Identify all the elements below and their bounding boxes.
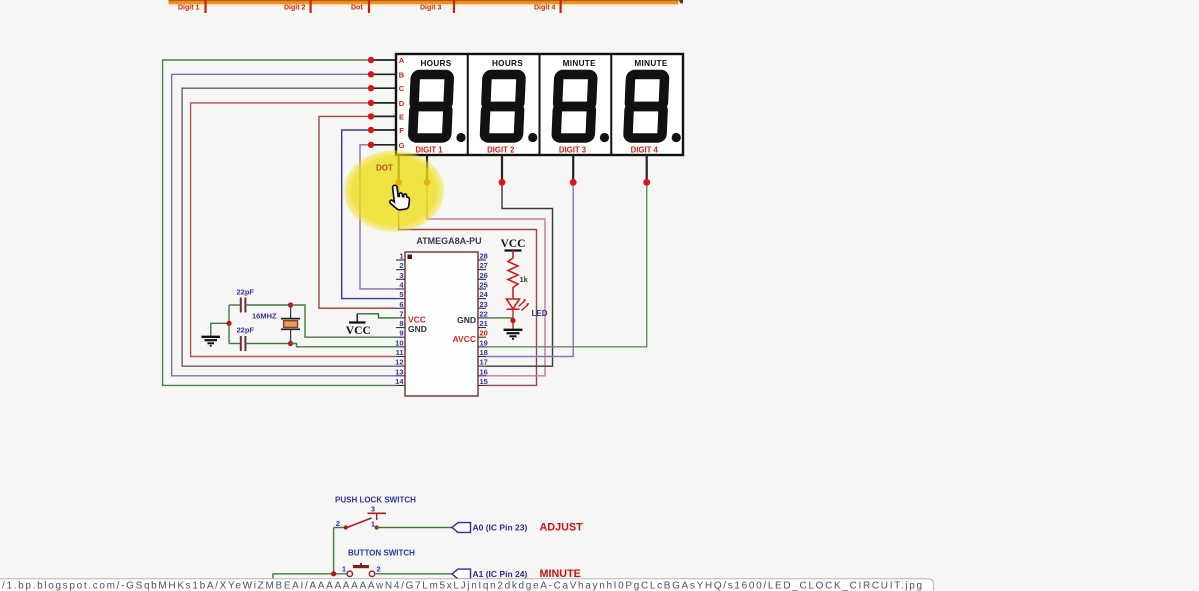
svg-text:F: F [399,126,404,135]
svg-text:A0 (IC Pin 23): A0 (IC Pin 23) [473,523,528,533]
svg-text:DIGIT 2: DIGIT 2 [487,146,515,155]
mouse cursor (hand pointer) [388,184,411,211]
VCC power symbol near pin 7 [346,314,371,337]
wire DOT stub [398,155,400,180]
node DIGIT3 [570,179,577,186]
wire to SW1 pole [334,527,345,529]
wire DIGIT4 stub [646,155,648,180]
wire net G (segment G to pin 4) [360,145,396,289]
wire SW2 to terminal A1 [375,573,452,575]
display digit 2 (HOURS) [484,59,537,155]
svg-text:2: 2 [336,519,340,528]
browser status bar [0,579,934,591]
wire net C (segment C to pin 12) [182,88,396,366]
svg-text:21: 21 [480,319,488,328]
display pin line F [371,129,396,131]
svg-text:23: 23 [480,300,488,309]
node bottom rail junction [331,571,336,576]
display pin line A [371,59,396,61]
svg-text:1: 1 [371,520,375,529]
node capacitor-ground junction [226,321,231,326]
svg-text:12: 12 [395,358,403,367]
svg-text:1: 1 [342,565,346,574]
svg-text:G: G [399,141,405,150]
SW1 pin labels [336,505,375,529]
svg-text:27: 27 [480,261,488,270]
svg-text:19: 19 [480,338,488,347]
SW2 terminal 2 [369,571,374,576]
svg-text:7: 7 [399,309,403,318]
node crystal top junction [288,302,293,307]
wire net DIGIT1 (to pin 16) [427,184,545,376]
svg-text:3: 3 [371,505,375,514]
SW2 terminal 1 [347,571,352,576]
svg-text:16: 16 [480,367,488,376]
ground symbol (crystal circuit) [202,337,221,346]
top bar tick Dot [368,0,370,13]
top bar tick Digit 3 [453,0,455,13]
top bar tick Digit 2 [310,0,312,13]
display digit 3 (MINUTE) [556,59,609,155]
node DIGIT4 [643,179,650,186]
svg-text:22pF: 22pF [237,288,255,297]
wire crystal top to pin 9 [291,305,396,337]
SW1 terminal 2 [344,525,348,529]
display pin line B [371,73,396,75]
svg-text:HOURS: HOURS [492,59,523,68]
svg-text:17: 17 [480,358,488,367]
svg-text:11: 11 [396,348,404,357]
wire net A (segment A to pin 14) [163,60,396,385]
svg-text:10: 10 [395,338,403,347]
display digit 4 (MINUTE) [628,59,681,155]
svg-text:E: E [399,112,404,121]
node G [368,142,374,148]
svg-text:13: 13 [395,367,403,376]
svg-text:AVCC: AVCC [453,334,476,344]
VCC power symbol above R1 [500,237,525,251]
node C [368,85,374,91]
terminal A1 [452,569,471,579]
svg-text:9: 9 [399,329,403,338]
wire net DIGIT4 (to pin 19) [486,184,647,347]
svg-text:ATMEGA8A-PU: ATMEGA8A-PU [416,236,481,246]
yellow highlight circle [343,150,445,233]
svg-text:15: 15 [480,377,488,386]
wire net DIGIT3 (to pin 18) [486,184,573,357]
svg-text:18: 18 [480,348,488,357]
svg-text:16MHZ: 16MHZ [252,312,277,321]
svg-text:Digit 2: Digit 2 [284,5,305,12]
svg-text:HOURS: HOURS [420,59,451,68]
wire net F (segment F to pin 5) [342,130,396,299]
node DIGIT1 [424,179,431,186]
U1 left pin numbers 1-14 [395,252,404,387]
svg-text:3: 3 [399,271,403,280]
U1 right pin numbers 28-15 [480,252,489,387]
display pin line C [371,87,396,89]
svg-text:1k: 1k [520,275,529,284]
svg-text:Digit 3: Digit 3 [420,5,441,12]
node B [368,71,374,77]
segment labels A-G [399,56,405,150]
node LED-GND junction [510,318,515,323]
wire DIGIT2 stub [501,155,503,180]
svg-text:DOT: DOT [376,164,393,173]
svg-text:/1.bp.blogspot.com/-GSqbMHKs1b: /1.bp.blogspot.com/-GSqbMHKs1bA/XYeWiZMB… [2,581,922,591]
svg-text:Digit 4: Digit 4 [534,5,555,12]
SW1 lever [347,518,372,528]
svg-text:LED: LED [532,309,548,318]
SW2 button cap [353,563,369,566]
svg-text:1: 1 [399,252,403,261]
wire SW1 pole down to bottom rail [333,528,335,574]
node A [368,57,374,63]
7-segment display block DS1 [396,54,683,155]
svg-text:D: D [399,99,405,108]
wire DIGIT1 stub [426,155,428,180]
node DIGIT2 [499,179,506,186]
terminal A0 [452,523,471,533]
node E [368,113,374,119]
svg-text:22: 22 [480,309,488,318]
svg-text:DIGIT 3: DIGIT 3 [559,146,587,155]
top bar tick Digit 1 [204,0,206,13]
svg-text:GND: GND [457,315,476,325]
svg-text:VCC: VCC [500,237,525,250]
svg-text:8: 8 [399,319,403,328]
SW1 pin 3 [368,513,387,520]
wire net D (segment D to pin 11) [191,103,396,357]
svg-text:MINUTE: MINUTE [540,568,581,580]
svg-text:MINUTE: MINUTE [634,59,667,68]
svg-text:A: A [399,56,405,65]
svg-text:2: 2 [377,565,381,574]
ground symbol (LED) [504,330,523,339]
display pin line E [371,115,396,117]
wire capacitors left vertical [228,305,230,344]
node D [368,100,374,106]
svg-text:DIGIT 1: DIGIT 1 [415,146,443,155]
display pin line G [371,144,396,146]
node F [368,127,374,133]
wire to ground [211,323,229,336]
svg-text:MINUTE: MINUTE [563,59,596,68]
node crystal bottom junction [288,341,293,346]
svg-text:14: 14 [395,377,404,386]
svg-text:VCC: VCC [408,314,426,324]
svg-text:2: 2 [399,261,403,270]
SW2 pin labels [342,565,381,574]
svg-text:ADJUST: ADJUST [540,522,584,534]
svg-text:Digit 1: Digit 1 [178,5,199,12]
svg-text:24: 24 [480,290,489,299]
svg-text:B: B [399,70,405,79]
microcontroller U1 ATMEGA8A-PU [405,236,482,396]
capacitor C2 22pF (bottom) [229,326,291,352]
svg-text:5: 5 [399,290,403,299]
svg-text:BUTTON SWITCH: BUTTON SWITCH [348,549,415,558]
capacitor C1 22pF (top) [229,288,291,313]
wire bottom rail left [273,574,348,580]
U1 right pin stubs 28-15 [478,260,486,385]
svg-text:26: 26 [480,271,488,280]
svg-text:20: 20 [480,329,488,338]
wire net B (segment B to pin 13) [172,74,396,376]
svg-text:Dot: Dot [351,5,363,12]
top bar tick Digit 4 [560,0,562,13]
wire crystal bottom to pin 10 [291,344,396,347]
top connector bar (cropped) [169,0,679,5]
wire SW1 to terminal A0 [377,527,452,529]
wire DIGIT3 stub [572,155,574,180]
wire net DIGIT2 (to pin 17) [486,184,553,366]
wire net DOT (to pin 15) [399,184,537,385]
top bar end glyph [679,0,683,4]
wire net E (segment E to pin 6) [319,116,396,308]
wire VCC to pin 7 [357,314,396,318]
svg-text:22pF: 22pF [237,326,255,335]
svg-text:6: 6 [399,300,403,309]
svg-text:28: 28 [480,252,488,261]
svg-text:PUSH LOCK SWITCH: PUSH LOCK SWITCH [335,496,416,505]
display digit 1 (HOURS) [413,59,466,155]
svg-text:GND: GND [408,324,427,334]
U1 left pin stubs 1-14 [396,260,405,385]
resistor R1 1k [508,251,529,298]
svg-text:C: C [399,84,405,93]
node DOT [395,179,402,186]
crystal X1 16MHZ [252,305,300,344]
svg-text:VCC: VCC [346,324,371,337]
SW1 terminal 1 [375,525,379,529]
LED D1 [507,298,530,330]
display pin line D [371,102,396,104]
svg-text:A1 (IC Pin 24): A1 (IC Pin 24) [473,569,528,579]
svg-text:25: 25 [480,281,488,290]
wire pin 22 to LED cathode [486,317,513,319]
svg-text:DIGIT 4: DIGIT 4 [631,146,659,155]
